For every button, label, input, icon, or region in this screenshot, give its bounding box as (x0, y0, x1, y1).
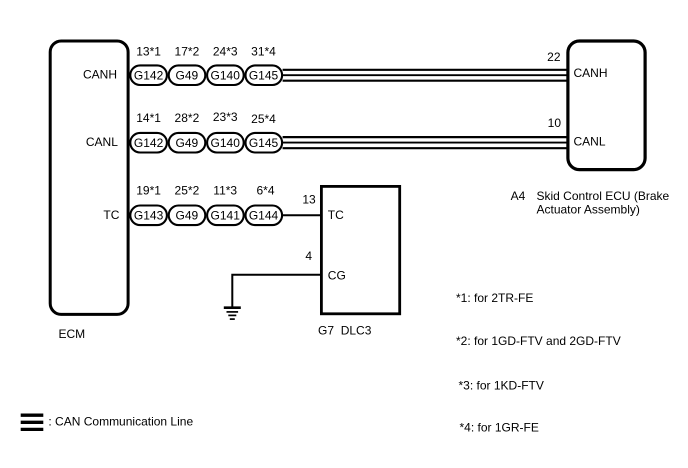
wire TC (G144 to DLC3) (283, 214, 322, 216)
svg-text:31*4: 31*4 (251, 44, 276, 58)
svg-text:G49: G49 (176, 209, 199, 223)
ECM box (50, 41, 128, 314)
svg-text:G142: G142 (134, 69, 164, 83)
svg-text:CANH: CANH (83, 68, 117, 82)
svg-text:25*4: 25*4 (251, 112, 276, 126)
svg-text:22: 22 (547, 50, 561, 64)
CAN communication line CANH (triple wire) (283, 70, 568, 81)
connector G145 (CANH row) (246, 65, 283, 85)
CAN communication line CANL (triple wire) (283, 137, 568, 148)
svg-text:TC: TC (103, 208, 119, 222)
connector G141 (TC row) (207, 206, 244, 226)
svg-text:13: 13 (302, 192, 316, 206)
connector G142 (CANL row) (130, 133, 167, 153)
svg-text:ECM: ECM (59, 327, 86, 341)
svg-text:6*4: 6*4 (256, 183, 274, 197)
connector G144 (TC row) (246, 206, 283, 226)
svg-text:G144: G144 (249, 209, 279, 223)
svg-text:19*1: 19*1 (136, 183, 161, 197)
svg-text:DLC3: DLC3 (341, 323, 372, 337)
wire CG (ground to DLC3) (232, 275, 321, 308)
svg-text:G140: G140 (211, 69, 241, 83)
connector G145 (CANL row) (246, 133, 283, 153)
svg-text:25*2: 25*2 (175, 183, 200, 197)
svg-text:G142: G142 (134, 136, 164, 150)
svg-text:*4: for 1GR-FE: *4: for 1GR-FE (460, 421, 539, 435)
svg-text:4: 4 (305, 249, 312, 263)
connector G140 (CANH row) (207, 65, 244, 85)
svg-text:G49: G49 (176, 69, 199, 83)
svg-text:*2: for 1GD-FTV and 2GD-FTV: *2: for 1GD-FTV and 2GD-FTV (456, 334, 621, 348)
svg-text:Skid Control ECU (Brake: Skid Control ECU (Brake (537, 189, 670, 203)
svg-text:28*2: 28*2 (175, 111, 200, 125)
svg-text:Actuator Assembly): Actuator Assembly) (537, 203, 640, 217)
Skid Control ECU box A4 (568, 41, 645, 170)
svg-text:A4: A4 (511, 189, 526, 203)
svg-text:*1: for 2TR-FE: *1: for 2TR-FE (456, 291, 533, 305)
svg-text:14*1: 14*1 (136, 111, 161, 125)
svg-text:G141: G141 (211, 209, 241, 223)
svg-text:TC: TC (328, 208, 344, 222)
connector G140 (CANL row) (207, 133, 244, 153)
legend CAN line symbol (21, 415, 44, 429)
svg-text:G7: G7 (318, 323, 334, 337)
svg-text:G145: G145 (249, 136, 279, 150)
connector G49 (CANL row) (169, 133, 206, 153)
svg-text:10: 10 (548, 116, 562, 130)
svg-text:24*3: 24*3 (213, 44, 238, 58)
svg-text:17*2: 17*2 (175, 44, 200, 58)
connector G142 (CANH row) (130, 65, 167, 85)
svg-text:23*3: 23*3 (213, 110, 238, 124)
svg-text:G145: G145 (249, 69, 279, 83)
connector G143 (TC row) (130, 206, 167, 226)
svg-text:*3: for 1KD-FTV: *3: for 1KD-FTV (459, 379, 544, 393)
svg-text:CANH: CANH (574, 66, 608, 80)
svg-text:: CAN Communication Line: : CAN Communication Line (48, 414, 193, 428)
svg-text:CG: CG (328, 268, 346, 282)
svg-text:G143: G143 (134, 209, 164, 223)
connector G49 (CANH row) (169, 65, 206, 85)
DLC3 box (321, 186, 399, 313)
connector G49 (TC row) (169, 206, 206, 226)
svg-text:G49: G49 (176, 136, 199, 150)
ground (224, 308, 241, 319)
svg-text:11*3: 11*3 (213, 183, 237, 197)
svg-text:G140: G140 (211, 136, 241, 150)
svg-text:13*1: 13*1 (136, 44, 161, 58)
svg-text:CANL: CANL (86, 135, 118, 149)
svg-text:CANL: CANL (574, 135, 606, 149)
